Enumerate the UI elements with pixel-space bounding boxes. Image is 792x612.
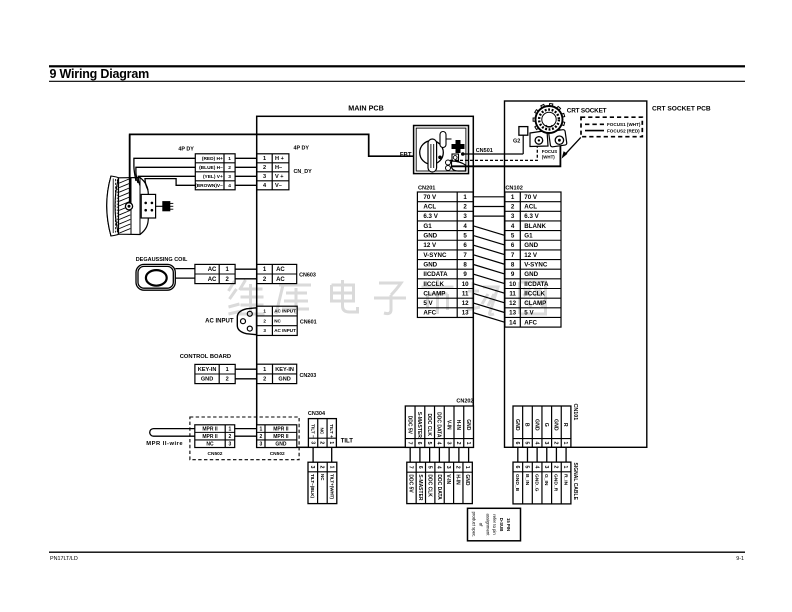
svg-text:2: 2 — [226, 377, 229, 383]
svg-text:SIGNAL CABLE: SIGNAL CABLE — [572, 463, 578, 501]
svg-text:3: 3 — [445, 466, 451, 469]
svg-text:1: 1 — [226, 367, 229, 373]
svg-text:AFC: AFC — [524, 319, 537, 326]
svg-text:4: 4 — [436, 466, 442, 469]
svg-text:2: 2 — [454, 466, 460, 469]
svg-text:3: 3 — [463, 213, 467, 220]
svg-text:4: 4 — [533, 466, 539, 469]
svg-text:6.3 V: 6.3 V — [524, 213, 539, 220]
svg-text:2: 2 — [553, 441, 559, 444]
svg-text:MPR II: MPR II — [202, 426, 218, 432]
svg-text:1: 1 — [263, 367, 266, 373]
svg-text:5: 5 — [524, 441, 530, 444]
svg-text:4: 4 — [228, 183, 231, 189]
svg-text:4P DY: 4P DY — [178, 147, 194, 153]
svg-text:15 PIN: 15 PIN — [506, 518, 511, 531]
svg-text:14: 14 — [509, 319, 516, 326]
svg-text:8: 8 — [511, 261, 515, 268]
svg-text:CN101: CN101 — [572, 404, 578, 421]
svg-text:GND_B: GND_B — [514, 474, 520, 492]
svg-text:6: 6 — [417, 466, 423, 469]
svg-text:AC: AC — [208, 277, 217, 283]
svg-text:9 Wiring Diagram: 9 Wiring Diagram — [50, 67, 150, 81]
svg-text:GND: GND — [553, 419, 559, 431]
svg-text:DDC 5V: DDC 5V — [408, 474, 414, 493]
svg-text:ACL: ACL — [524, 204, 537, 211]
svg-text:AC INPUT: AC INPUT — [274, 328, 296, 333]
svg-text:B: B — [524, 423, 530, 427]
svg-text:DDC CLK: DDC CLK — [426, 474, 432, 497]
svg-text:(RED) H+: (RED) H+ — [202, 156, 223, 162]
svg-text:9-1: 9-1 — [736, 556, 744, 562]
svg-text:2: 2 — [463, 204, 467, 211]
svg-text:G1: G1 — [524, 233, 533, 240]
svg-text:V-SYNC: V-SYNC — [423, 252, 447, 259]
svg-text:AFC: AFC — [423, 310, 436, 317]
svg-text:2: 2 — [263, 377, 266, 383]
svg-text:V–: V– — [275, 183, 282, 189]
svg-text:5: 5 — [511, 233, 515, 240]
svg-text:1: 1 — [562, 441, 568, 444]
svg-text:CN501: CN501 — [476, 148, 493, 154]
svg-text:CN_DY: CN_DY — [294, 169, 313, 175]
svg-text:H-IN: H-IN — [455, 420, 461, 431]
svg-text:MPR II: MPR II — [273, 434, 289, 440]
svg-text:4: 4 — [436, 442, 442, 445]
svg-text:CN601: CN601 — [300, 319, 317, 325]
svg-text:3: 3 — [263, 328, 266, 333]
svg-text:ACL: ACL — [423, 204, 436, 211]
svg-text:FOCUS: FOCUS — [542, 149, 557, 154]
svg-text:H +: H + — [275, 156, 285, 162]
svg-text:AC: AC — [276, 277, 285, 283]
svg-text:DDC CLK: DDC CLK — [426, 414, 432, 437]
svg-text:3: 3 — [228, 174, 231, 180]
svg-text:GND: GND — [423, 233, 437, 240]
svg-text:3: 3 — [229, 441, 232, 447]
svg-text:CN202: CN202 — [456, 399, 473, 405]
svg-text:NC: NC — [320, 428, 325, 435]
svg-text:(WHT): (WHT) — [542, 155, 555, 160]
svg-text:GND_G: GND_G — [533, 474, 539, 492]
svg-text:5: 5 — [524, 466, 530, 469]
svg-text:MPR II: MPR II — [273, 426, 289, 432]
svg-text:2: 2 — [553, 466, 559, 469]
svg-text:3: 3 — [309, 466, 315, 469]
svg-text:V-IN: V-IN — [445, 474, 451, 484]
svg-text:GND: GND — [524, 271, 538, 278]
svg-text:1: 1 — [465, 442, 471, 445]
svg-text:FOCUS2 (RED): FOCUS2 (RED) — [607, 128, 640, 133]
svg-text:DDC DATA: DDC DATA — [436, 474, 442, 500]
svg-text:8: 8 — [463, 261, 467, 268]
svg-text:1: 1 — [263, 156, 266, 162]
svg-text:70 V: 70 V — [423, 194, 437, 201]
svg-text:5: 5 — [426, 442, 432, 445]
svg-text:CN502: CN502 — [270, 451, 285, 457]
svg-text:G2: G2 — [513, 138, 520, 144]
svg-text:TILT: TILT — [341, 439, 354, 445]
svg-text:V-IN: V-IN — [445, 420, 451, 430]
svg-text:1: 1 — [259, 426, 262, 432]
svg-text:H-IN: H-IN — [455, 474, 461, 485]
svg-text:2: 2 — [319, 466, 325, 469]
svg-text:DEGAUSSING COIL: DEGAUSSING COIL — [136, 257, 188, 263]
svg-text:1: 1 — [463, 194, 467, 201]
svg-text:FBT: FBT — [400, 152, 412, 158]
svg-text:3: 3 — [543, 441, 549, 444]
svg-text:4: 4 — [463, 223, 467, 230]
svg-text:5: 5 — [426, 466, 432, 469]
svg-text:4: 4 — [533, 441, 539, 444]
svg-text:7: 7 — [406, 442, 412, 445]
svg-text:GND: GND — [464, 474, 470, 486]
svg-text:3: 3 — [543, 466, 549, 469]
svg-text:6.3 V: 6.3 V — [423, 213, 438, 220]
svg-text:9: 9 — [463, 271, 467, 278]
svg-text:CONTROL BOARD: CONTROL BOARD — [180, 354, 231, 360]
svg-text:6: 6 — [514, 466, 520, 469]
svg-text:3: 3 — [309, 441, 315, 444]
svg-text:GND: GND — [278, 377, 290, 383]
svg-text:2: 2 — [511, 204, 515, 211]
svg-text:6: 6 — [416, 442, 422, 445]
svg-text:9: 9 — [511, 271, 515, 278]
svg-text:6: 6 — [511, 242, 515, 249]
svg-text:GND_R: GND_R — [553, 474, 559, 492]
svg-text:70 V: 70 V — [524, 194, 538, 201]
svg-text:12: 12 — [509, 300, 516, 307]
svg-text:R: R — [562, 423, 568, 427]
svg-text:CN502: CN502 — [208, 451, 223, 457]
svg-text:product spec.: product spec. — [471, 512, 476, 538]
svg-text:2: 2 — [229, 434, 232, 440]
svg-text:TILT+(WHT): TILT+(WHT) — [329, 474, 334, 500]
svg-text:GND: GND — [465, 419, 471, 431]
svg-text:V-SYNC: V-SYNC — [524, 261, 548, 268]
svg-text:2: 2 — [228, 165, 231, 171]
svg-text:refer to pin: refer to pin — [492, 514, 497, 535]
svg-text:7: 7 — [408, 466, 414, 469]
svg-text:1: 1 — [229, 426, 232, 432]
svg-text:2: 2 — [263, 318, 266, 323]
svg-text:GND: GND — [524, 242, 538, 249]
svg-text:G: G — [543, 423, 549, 427]
svg-text:12: 12 — [462, 300, 469, 307]
svg-text:1: 1 — [464, 466, 470, 469]
svg-text:1: 1 — [328, 441, 334, 444]
svg-text:MAIN PCB: MAIN PCB — [348, 104, 384, 113]
svg-text:G_IN: G_IN — [543, 474, 549, 486]
svg-text:11: 11 — [509, 290, 516, 297]
svg-text:CN102: CN102 — [505, 186, 522, 192]
svg-text:CN201: CN201 — [418, 186, 435, 192]
svg-text:R_IN: R_IN — [562, 474, 568, 486]
svg-text:13: 13 — [509, 310, 516, 317]
svg-text:12 V: 12 V — [423, 242, 437, 249]
svg-text:CN203: CN203 — [300, 373, 317, 379]
svg-text:6: 6 — [514, 441, 520, 444]
svg-text:MPR II: MPR II — [202, 434, 218, 440]
svg-text:7: 7 — [463, 252, 467, 259]
svg-text:KEY-IN: KEY-IN — [198, 367, 217, 373]
svg-text:2: 2 — [259, 434, 262, 440]
svg-text:AC INPUT: AC INPUT — [205, 319, 234, 325]
svg-text:4P DY: 4P DY — [294, 145, 310, 151]
svg-text:TILT +: TILT + — [329, 424, 334, 438]
svg-text:7: 7 — [511, 252, 515, 259]
svg-text:1: 1 — [328, 466, 334, 469]
svg-text:G1: G1 — [423, 223, 432, 230]
svg-text:6: 6 — [463, 242, 467, 249]
svg-text:3: 3 — [445, 442, 451, 445]
svg-text:CRT SOCKET PCB: CRT SOCKET PCB — [652, 106, 711, 113]
svg-text:D-SUB: D-SUB — [499, 518, 504, 532]
svg-text:V +: V + — [275, 174, 284, 180]
svg-text:3: 3 — [263, 174, 266, 180]
svg-text:AC: AC — [208, 267, 217, 273]
svg-text:TILT−(BLK): TILT−(BLK) — [310, 474, 315, 499]
svg-text:S-MASTER: S-MASTER — [417, 474, 423, 501]
svg-text:5: 5 — [463, 233, 467, 240]
svg-text:10: 10 — [509, 281, 516, 288]
svg-text:B_IN: B_IN — [524, 474, 530, 486]
svg-text:(BLUE) H–: (BLUE) H– — [199, 165, 223, 171]
svg-text:11: 11 — [462, 290, 469, 297]
svg-text:GND: GND — [201, 377, 213, 383]
svg-text:2: 2 — [319, 441, 325, 444]
svg-text:GND: GND — [423, 261, 437, 268]
svg-text:(BROWN)V–: (BROWN)V– — [195, 183, 223, 189]
svg-text:2: 2 — [455, 442, 461, 445]
svg-text:PN17LT/LD: PN17LT/LD — [50, 556, 78, 562]
svg-text:BLANK: BLANK — [524, 223, 546, 230]
svg-text:1: 1 — [511, 194, 515, 201]
svg-text:NC: NC — [320, 474, 325, 481]
svg-text:4: 4 — [511, 223, 515, 230]
svg-text:1: 1 — [228, 156, 231, 162]
svg-text:DDC DATA: DDC DATA — [436, 412, 442, 438]
svg-text:TILT −: TILT − — [310, 424, 315, 438]
svg-text:IICDATA: IICDATA — [423, 271, 448, 278]
svg-text:GND: GND — [275, 441, 287, 447]
svg-text:assignment: assignment — [485, 514, 490, 537]
svg-text:AC: AC — [276, 267, 285, 273]
svg-text:MPR II-wire: MPR II-wire — [146, 441, 183, 447]
svg-text:2: 2 — [263, 165, 266, 171]
svg-text:H–: H– — [275, 165, 282, 171]
svg-text:DDC 5V: DDC 5V — [406, 416, 412, 435]
svg-text:GND: GND — [533, 419, 539, 431]
svg-text:CRT SOCKET: CRT SOCKET — [567, 107, 607, 114]
svg-text:(YEL) V+: (YEL) V+ — [203, 174, 223, 180]
svg-text:GND: GND — [514, 419, 520, 431]
svg-text:FOCUS1 (WHT): FOCUS1 (WHT) — [607, 122, 641, 127]
svg-text:NC: NC — [206, 441, 214, 447]
svg-text:3: 3 — [511, 213, 515, 220]
svg-text:NC: NC — [274, 318, 281, 323]
svg-text:1: 1 — [562, 466, 568, 469]
svg-text:10: 10 — [462, 281, 469, 288]
svg-text:S-MASTER: S-MASTER — [416, 412, 422, 439]
svg-text:3: 3 — [259, 441, 262, 447]
svg-text:CN304: CN304 — [308, 411, 326, 417]
svg-text:KEY-IN: KEY-IN — [275, 367, 294, 373]
svg-text:CN603: CN603 — [299, 273, 316, 279]
svg-text:12 V: 12 V — [524, 252, 538, 259]
